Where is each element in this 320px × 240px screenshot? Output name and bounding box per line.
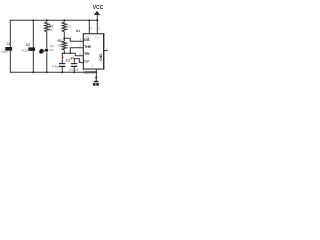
wire R1 branch lower <box>46 53 48 72</box>
node dots middle <box>46 37 71 54</box>
red pin markers <box>62 39 71 60</box>
svg-text:GND: GND <box>99 53 103 61</box>
wire C2 branch vertical <box>32 20 34 72</box>
transistor Q1 blob <box>39 49 44 54</box>
power VCC symbol <box>94 11 100 15</box>
wire timing cap top lead <box>61 53 63 63</box>
svg-text:VCC: VCC <box>93 5 104 11</box>
wire node THR/TRI <box>62 48 83 56</box>
svg-text:C2: C2 <box>26 43 30 47</box>
node dots bottom rail <box>32 71 97 78</box>
wire IC pin 4 to rail <box>88 20 90 33</box>
node Q1 on-line knot <box>45 49 48 52</box>
wire IC pin 8 to rail <box>96 20 98 33</box>
resistor R2 <box>62 20 67 38</box>
svg-text:0.1uF: 0.1uF <box>52 65 60 69</box>
capacitor C1 <box>5 47 12 51</box>
svg-text:C1: C1 <box>7 42 11 46</box>
wire timing cap bottom lead <box>61 67 63 72</box>
capacitor C4 plates <box>71 63 77 67</box>
wire node DIS to pin 7 <box>64 38 83 41</box>
svg-text:TRI: TRI <box>84 52 89 56</box>
wire IC output pin 3 stub <box>104 50 107 52</box>
svg-text:NE555N: NE555N <box>83 70 97 74</box>
wire C1 branch vertical <box>9 20 11 72</box>
svg-text:U1: U1 <box>76 29 81 33</box>
wire IC GND pin down <box>95 69 97 81</box>
op-amp U1 IC box NE555 <box>83 33 105 69</box>
capacitor C3 plates <box>59 63 65 67</box>
svg-text:1M: 1M <box>58 44 63 48</box>
resistor R1 <box>45 20 50 48</box>
svg-text:C4: C4 <box>71 56 75 60</box>
resistor R3 <box>62 38 67 53</box>
capacitor C2 <box>28 47 35 51</box>
svg-text:10uF: 10uF <box>1 50 8 54</box>
svg-text:1k: 1k <box>49 28 53 32</box>
svg-text:R3: R3 <box>58 39 62 43</box>
wire CV cap bottom lead <box>73 67 75 72</box>
svg-text:C3: C3 <box>66 58 70 62</box>
svg-text:R2: R2 <box>68 24 72 28</box>
wire bottom ground rail <box>10 71 96 73</box>
svg-text:0.01uF: 0.01uF <box>69 68 79 72</box>
wire CV cap top lead to pin 5 <box>74 59 83 64</box>
wire top VCC rail <box>10 19 97 21</box>
svg-text:THR: THR <box>84 45 91 49</box>
svg-text:0.1uF: 0.1uF <box>22 49 30 53</box>
node dots top rail <box>32 19 98 21</box>
svg-text:V+: V+ <box>95 36 99 40</box>
wire VCC stem <box>96 15 98 20</box>
ground symbol <box>93 81 99 86</box>
